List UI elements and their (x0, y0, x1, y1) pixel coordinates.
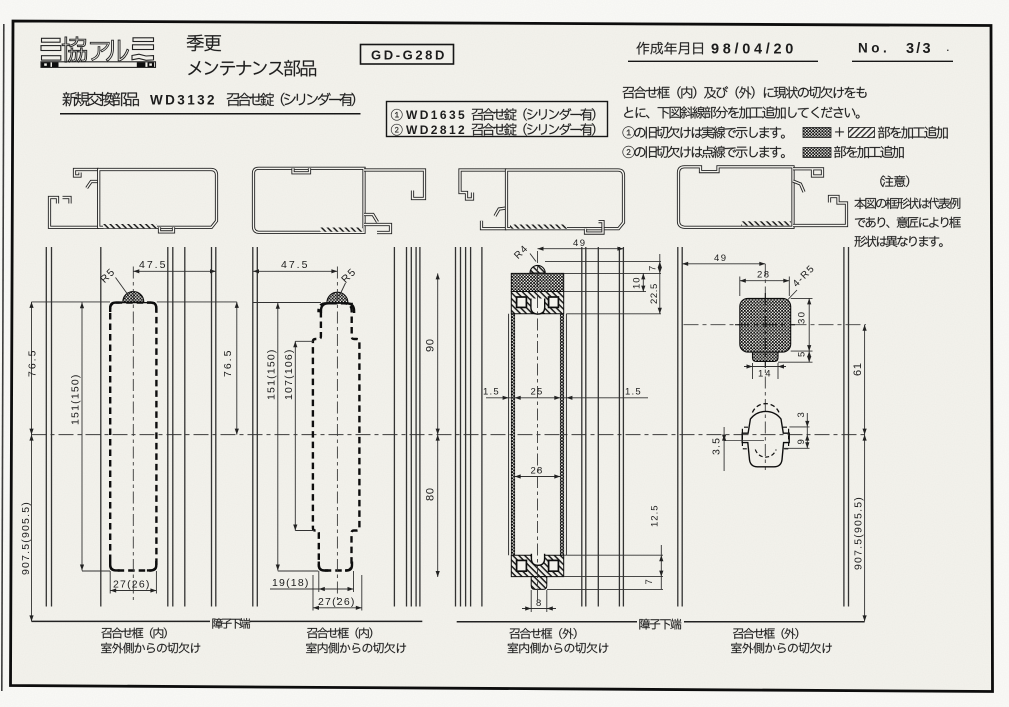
svg-text:30: 30 (797, 310, 808, 324)
svg-text:7: 7 (648, 265, 659, 271)
svg-text:76.5: 76.5 (27, 349, 39, 377)
90/80 dim line (drawing 3 refs) (437, 273, 439, 577)
D3 side walls (checkered strips) (511, 314, 514, 555)
code box GD-G28D (361, 45, 454, 65)
svg-text:25: 25 (531, 386, 544, 397)
extrusion profile 3 (460, 170, 624, 233)
centerline D2 (336, 267, 338, 601)
instruction note lines (623, 86, 867, 98)
svg-text:1.5: 1.5 (625, 386, 642, 397)
svg-text:3.5: 3.5 (711, 437, 723, 455)
svg-text:7: 7 (644, 578, 655, 584)
svg-text:WD1635: WD1635 (406, 108, 467, 122)
dims D2 (253, 302, 321, 304)
svg-text:27(26): 27(26) (113, 579, 151, 591)
dims D1 (32, 301, 111, 303)
svg-text:3: 3 (796, 411, 807, 417)
date / page no (636, 42, 703, 55)
svg-text:49: 49 (714, 253, 728, 264)
svg-text:8: 8 (536, 598, 542, 609)
svg-text:98/04/20: 98/04/20 (711, 42, 797, 58)
dims D4 upper (682, 263, 765, 265)
Sankyo Aluminium logo (41, 38, 61, 60)
centerline D4 horizontal (upper) (684, 324, 867, 326)
svg-text:47.5: 47.5 (281, 259, 309, 271)
svg-text:107(106): 107(106) (283, 348, 295, 400)
svg-text:151(150): 151(150) (266, 348, 278, 400)
svg-text:1.5: 1.5 (483, 386, 500, 397)
svg-text:.: . (946, 39, 951, 54)
svg-text:22.5: 22.5 (649, 283, 660, 304)
title 季更 / メンテナンス部品 (187, 35, 221, 52)
centerline D1 (132, 267, 134, 601)
svg-text:GD-G28D: GD-G28D (371, 48, 447, 63)
dims D4 lower (723, 427, 725, 471)
svg-text:WD2812: WD2812 (406, 123, 467, 137)
caution note (880, 176, 883, 187)
svg-text:76.5: 76.5 (222, 349, 234, 377)
D4 hatched block (740, 298, 791, 352)
svg-text:90: 90 (425, 338, 437, 352)
svg-text:WD3132: WD3132 (150, 93, 217, 108)
extrusion profile 2 (254, 168, 425, 232)
svg-text:9: 9 (796, 438, 807, 444)
svg-text:907.5(905.5): 907.5(905.5) (853, 496, 865, 570)
R5 lug on top of cutout D2 (327, 292, 348, 303)
centerline D4 vertical (764, 264, 766, 470)
svg-text:80: 80 (425, 487, 437, 501)
old cut solid lines D3 (508, 314, 510, 555)
cutout D1: dashed rounded rect (110, 303, 156, 571)
cutout D2: stepped dashed shape (313, 303, 360, 570)
main horizontal centerline (32, 434, 867, 436)
parts box WD1635 / WD2812 (387, 102, 608, 137)
R4 lug on top D3 (530, 265, 545, 273)
svg-text:No.: No. (858, 41, 890, 56)
svg-text:49: 49 (573, 238, 587, 249)
svg-text:907.5(905.5): 907.5(905.5) (20, 501, 32, 575)
captions (102, 628, 167, 639)
svg-text:5: 5 (797, 351, 808, 357)
D3 top block (511, 292, 563, 314)
centerline D3 (537, 251, 539, 600)
shoji frame lines drawing 1 (45, 247, 47, 607)
svg-text:151(150): 151(150) (70, 373, 82, 425)
svg-text:12.5: 12.5 (650, 505, 661, 528)
D4 cylinder shape (752, 404, 779, 413)
svg-text:3/3: 3/3 (906, 41, 933, 57)
extrusion profile 1 (top far left) (50, 170, 217, 232)
D3 bottom tab (531, 577, 547, 590)
svg-text:28: 28 (757, 270, 771, 281)
svg-text:28: 28 (531, 466, 544, 477)
dims D3 (538, 248, 624, 250)
svg-text:61: 61 (852, 362, 864, 376)
61 / 907.5 dim right (864, 325, 866, 622)
svg-text:27(26): 27(26) (318, 596, 356, 608)
shoji bottom edge lines (32, 620, 211, 622)
centerline overlays through hatched block (735, 324, 795, 326)
R5 lug on top of cutout D1 (123, 292, 144, 303)
svg-text:47.5: 47.5 (139, 259, 167, 271)
svg-text:19(18): 19(18) (272, 577, 310, 589)
subtitle 新規交換部品 WD3132 (63, 92, 139, 106)
svg-text:14: 14 (758, 369, 773, 380)
D3 bottom block (511, 555, 563, 576)
extrusion profile 4 (679, 167, 847, 228)
svg-text:10: 10 (632, 276, 643, 289)
